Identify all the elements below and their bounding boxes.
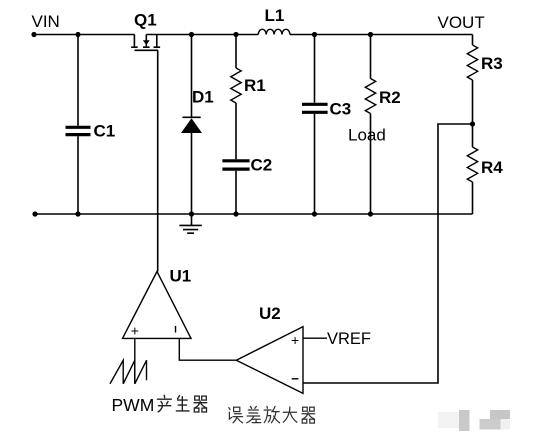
- wire D1 anode lead: [191, 133, 193, 214]
- svg-text:Q1: Q1: [134, 11, 157, 30]
- wire C1 bottom lead: [77, 136, 79, 214]
- wire C1 top lead: [77, 35, 79, 126]
- label 误差放大器 (error amplifier): [229, 406, 315, 423]
- R3 zigzag: [467, 45, 477, 80]
- op-amp U1 (PWM comparator, pointing up): [123, 272, 192, 339]
- svg-text:C2: C2: [251, 156, 273, 175]
- capacitor C1: [66, 35, 91, 215]
- wire top rail after L1 to VOUT corner: [290, 34, 473, 36]
- PWM sawtooth waveform: [110, 360, 147, 384]
- node bottom rail left end: [32, 211, 37, 216]
- svg-text:U2: U2: [259, 304, 281, 323]
- Q1 channel ticks: [131, 46, 160, 48]
- wire R2 bottom lead: [370, 114, 372, 215]
- wire top rail right (Q1 drain to L1): [146, 34, 258, 36]
- wire C3 bottom lead: [314, 114, 316, 214]
- node D1 bottom / ground: [189, 211, 194, 216]
- Q1 middle (body) stub: [145, 35, 147, 47]
- svg-text:R3: R3: [481, 54, 503, 73]
- node R2 top: [368, 32, 373, 37]
- label PWM产生器 (PWM generator): [112, 395, 207, 415]
- U1 - pin label (rotated): [175, 326, 177, 333]
- watermark: [438, 410, 510, 431]
- glyph 生: [176, 396, 189, 411]
- glyph 器: [302, 407, 315, 423]
- glyph 器: [194, 396, 207, 412]
- svg-text:D1: D1: [192, 88, 214, 107]
- Q1 gate plate: [135, 49, 159, 51]
- ground (below D1 node): [179, 214, 201, 233]
- Q1 source stub: [133, 35, 135, 47]
- C3 plates: [302, 104, 328, 112]
- wire D1 cathode lead: [191, 35, 193, 118]
- capacitor C3: [302, 35, 328, 215]
- wire U2 noninverting input to VREF: [303, 337, 327, 339]
- node C3 bottom: [312, 211, 317, 216]
- svg-text:+: +: [131, 323, 139, 339]
- svg-text:L1: L1: [265, 6, 285, 25]
- R2 zigzag: [365, 79, 375, 114]
- wire Q1 gate down to U1 output (crosses bottom rail): [157, 50, 159, 271]
- wire bottom rail: [35, 213, 473, 215]
- wire U1 noninverting input to sawtooth: [134, 338, 136, 383]
- wire R2 top lead: [370, 35, 372, 79]
- svg-text:VIN: VIN: [32, 12, 60, 31]
- Q1 drain stub: [156, 35, 158, 47]
- node C1 bottom: [75, 211, 80, 216]
- node C1 top: [75, 32, 80, 37]
- wire C3 top lead: [314, 35, 316, 103]
- svg-text:+: +: [291, 332, 299, 348]
- glyph 误: [229, 407, 243, 423]
- capacitor C2: [222, 161, 249, 214]
- transistor Q1 (P-MOSFET in series with top rail): [131, 35, 160, 51]
- node VIN end dot: [31, 32, 36, 37]
- glyph 放: [264, 406, 279, 422]
- D1 cathode bar: [182, 116, 200, 118]
- svg-text:R4: R4: [481, 158, 503, 177]
- node R2 bottom: [368, 211, 373, 216]
- wire feedback from divider node left then down to U2 inverting input: [303, 124, 473, 383]
- wire VOUT corner down to R3: [472, 35, 474, 46]
- op-amp U2 (error amplifier, pointing left): [236, 327, 303, 394]
- wire U1 inverting input to U2 output: [179, 338, 236, 360]
- wire R1 to C2: [235, 103, 237, 159]
- inductor L1: [258, 29, 290, 34]
- C1 plates: [66, 127, 91, 134]
- resistor R2 (Load): [365, 35, 375, 215]
- R1 zigzag: [231, 68, 241, 103]
- node C3 top: [312, 32, 317, 37]
- diode D1: [181, 35, 202, 215]
- wire node to R4: [472, 124, 474, 147]
- svg-text:C3: C3: [330, 100, 352, 119]
- svg-text:Load: Load: [348, 126, 386, 145]
- wire C2 bottom lead: [235, 171, 237, 214]
- node D1 top: [189, 32, 194, 37]
- Q1 body arrow: [143, 40, 150, 45]
- node R1 top: [233, 32, 238, 37]
- svg-text:R2: R2: [379, 88, 401, 107]
- R4 zigzag: [467, 147, 477, 182]
- wire R4 bottom to rail: [472, 182, 474, 214]
- svg-text:R1: R1: [244, 76, 266, 95]
- svg-text:U1: U1: [170, 267, 192, 286]
- resistor R1: [231, 35, 241, 160]
- resistor R4: [467, 124, 477, 214]
- wire R1 top lead: [235, 35, 237, 69]
- wire top rail left (VIN to Q1 source): [34, 34, 134, 36]
- glyph 大: [283, 407, 297, 422]
- svg-text:PWM: PWM: [112, 395, 155, 415]
- D1 triangle (anode, pointing up): [181, 118, 202, 133]
- glyph 产: [158, 395, 172, 412]
- svg-text:VOUT: VOUT: [438, 13, 485, 32]
- C2 plates: [222, 161, 249, 169]
- U2 - pin label: [292, 378, 299, 380]
- node R3/R4 feedback junction: [470, 121, 475, 126]
- resistor R3: [467, 45, 477, 124]
- glyph 差: [247, 406, 261, 422]
- svg-text:C1: C1: [94, 122, 116, 141]
- node C2 bottom: [233, 211, 238, 216]
- svg-text:VREF: VREF: [327, 330, 371, 348]
- wire R3 bottom to node: [472, 80, 474, 124]
